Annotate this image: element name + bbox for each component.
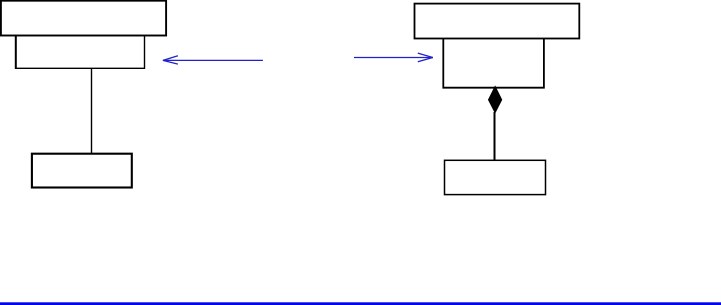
left blue arrow (pointing left) bbox=[163, 56, 263, 64]
wire: left connector bbox=[91, 68, 93, 153]
left middle box (top edge shared with box above) bbox=[16, 36, 145, 69]
right top box bbox=[415, 4, 580, 39]
left middle box thick left edge bbox=[15, 35, 17, 69]
right middle box (top edge shared with box above) bbox=[443, 39, 544, 88]
right bottom box bbox=[445, 160, 546, 194]
left bottom box bbox=[32, 154, 132, 188]
right blue arrow (pointing right) bbox=[354, 53, 433, 62]
composition diamond (filled) bbox=[489, 87, 502, 113]
wire: right connector bbox=[494, 112, 496, 160]
footer bar bbox=[0, 302, 721, 305]
left top box bbox=[1, 1, 166, 36]
